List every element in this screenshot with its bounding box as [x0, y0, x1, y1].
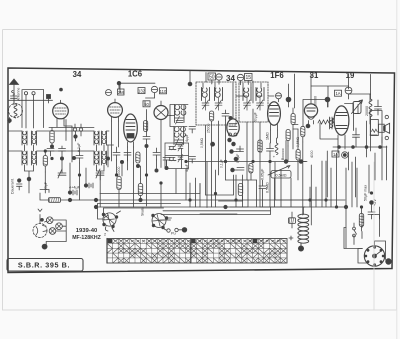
circled terminal top left of V2 [106, 90, 112, 96]
valve data table [107, 239, 287, 264]
tube type label 34 [73, 70, 82, 79]
bias resistor below V7 [301, 126, 305, 142]
svg-text:Dauerant.: Dauerant. [11, 178, 15, 194]
cap and resistor 0.5M center-right [259, 180, 270, 193]
antenna series capacitor [11, 96, 18, 104]
svg-text:MF-128KHZ: MF-128KHZ [72, 235, 101, 241]
coupling cap near output [353, 128, 360, 147]
svg-text:0,5MΩ: 0,5MΩ [266, 182, 270, 193]
IFT2 primary trimmer [244, 98, 251, 110]
grid cap dot left of 19 [325, 97, 330, 107]
resistor 15k box [249, 164, 253, 174]
resistor 0.5M right [296, 150, 300, 161]
junction dot under V1 [50, 145, 53, 148]
table pointer arrow top right [289, 236, 293, 240]
junction dot band switch [74, 131, 77, 141]
extra vertical drop wires left [29, 148, 186, 207]
svg-text:S.B.R. 395 B.: S.B.R. 395 B. [18, 261, 70, 270]
svg-text:25000: 25000 [207, 123, 211, 133]
wire bus B+ y200 [40, 190, 321, 201]
RF coil L4 right lower [102, 151, 107, 165]
IF transformer 1 shield dashed box [196, 82, 236, 125]
osc tank coil upper [175, 105, 186, 123]
screen resistor R2 [43, 151, 47, 172]
wire grid line to RF tube [8, 99, 53, 101]
circled terminal G [216, 74, 222, 80]
label vertical NaF [363, 185, 367, 201]
band switch contact S2a [73, 124, 76, 131]
osc tank coil fourth [169, 155, 183, 163]
label 0.1uF vertical [77, 142, 81, 152]
IFT1 primary trimmer [202, 98, 209, 110]
antenna coil secondary upper right [32, 131, 37, 145]
label 0.05uF vertical [261, 168, 265, 180]
osc tank trimmer upper [176, 116, 184, 124]
wire RF coils joining [97, 145, 105, 180]
wavechange switch wafer 2 [152, 214, 168, 229]
filter capacitor right [375, 100, 382, 115]
tone pot diagonal arrow [352, 100, 363, 114]
page fold faint line [373, 162, 375, 310]
tube type label 1C6 [128, 70, 143, 79]
mica capacitor pair mid [163, 158, 170, 167]
hum coil vertical right [369, 94, 372, 121]
osc tank coil third [169, 144, 183, 152]
wire V1 pins down [57, 121, 72, 162]
IF amp tube V5 [227, 119, 239, 136]
wires IF verticals [206, 109, 299, 195]
electrolytic caps 4+4uF [68, 183, 93, 195]
wire coil tops joining [25, 145, 34, 151]
rectifier tube 31 V7 [304, 104, 317, 124]
svg-text:2: 2 [104, 233, 106, 237]
table heavy separator and header glyphs [107, 239, 257, 264]
extra horizontal link wires [8, 83, 306, 207]
wire bus y193.5 [100, 184, 200, 194]
boxed label 110 [160, 88, 168, 94]
svg-text:19: 19 [346, 71, 355, 80]
svg-text:1A: 1A [333, 152, 338, 157]
boxed label 132 [138, 88, 146, 94]
svg-text:1F6: 1F6 [270, 71, 284, 80]
svg-text:4µµF: 4µµF [185, 134, 189, 142]
tuning gang capacitor mid [96, 169, 104, 178]
filament bus wire y147 [333, 146, 387, 149]
svg-text:110: 110 [160, 89, 167, 94]
RF coil L3 right [102, 131, 107, 145]
loudspeaker [370, 120, 389, 136]
IFT1 grid resistor [210, 111, 214, 121]
IFT2 secondary coil [256, 88, 264, 101]
long link wires y210 y214 [161, 208, 271, 215]
output tube 19 V8 [332, 106, 348, 139]
circled terminal mid [151, 86, 157, 98]
junction dot osc bottom [155, 166, 168, 172]
AF coupling resistor vertical [258, 140, 262, 152]
label vertical 30000 [365, 106, 369, 116]
junction dot top center [188, 82, 192, 86]
antenna coil secondary upper left [22, 131, 27, 145]
RF coil L3 left [94, 131, 99, 145]
osc tank trimmer lower [175, 138, 183, 146]
speaker field tap resistor [289, 212, 296, 228]
svg-text:1939-40: 1939-40 [76, 228, 98, 234]
resistor boxed on lower mid [136, 152, 140, 163]
svg-text:0,5MΩ: 0,5MΩ [296, 136, 300, 147]
svg-text:34: 34 [73, 70, 82, 79]
osc tank coil lower [174, 127, 185, 145]
wire top bus mixer [119, 82, 155, 84]
electrolytic 2V cap bottom right [368, 199, 380, 219]
small cap with label left of IF 2 [185, 157, 196, 173]
wire rotary connections [358, 241, 386, 263]
nested wire corners center [200, 162, 345, 214]
padder capacitor C6 [143, 132, 150, 145]
svg-text:50000: 50000 [314, 96, 318, 106]
circled dot below 19 [342, 152, 348, 158]
wire right verticals to bottom [303, 142, 346, 248]
filament wires below 19 [320, 123, 345, 153]
trimmer cap mixer [153, 148, 160, 160]
chassis date label 1939-40 [76, 228, 98, 234]
grid leak resistor R4 [144, 121, 148, 132]
bypass capacitor C3 [59, 146, 66, 157]
wire oscillator verticals [145, 101, 182, 170]
tuning gang capacitor left [58, 169, 66, 178]
svg-text:4µµF: 4µµF [185, 164, 189, 172]
extra junction dots [44, 88, 373, 209]
V7 cathode dot [306, 124, 310, 128]
wire antenna top bus [23, 89, 44, 91]
volume pot 0.5M [268, 166, 291, 179]
oscillator section tube V3 [154, 101, 168, 120]
pilot lamp 2 [56, 223, 63, 230]
svg-text:Pu: Pu [171, 232, 176, 236]
vertical resistor on bus x140 [138, 179, 142, 200]
dropper resistor boxed on bus [49, 198, 61, 203]
circled terminal above 1F6 [276, 93, 282, 99]
wire bus y207 [96, 206, 346, 208]
svg-text:4000: 4000 [310, 150, 314, 158]
label 0.1uF det vertical [236, 153, 240, 163]
antenna coil secondary lower right [32, 151, 37, 165]
svg-text:1C6: 1C6 [128, 70, 143, 79]
mains terminal big dot [386, 259, 392, 265]
chassis label MF-128KHZ [72, 235, 101, 241]
wire top area links [190, 71, 371, 109]
junction dot osc [145, 144, 148, 147]
boxed terminal label 15 [245, 74, 253, 82]
osc tank box lower [165, 143, 189, 169]
voltage selector rotary [364, 246, 384, 266]
boxed label 50b [143, 101, 150, 107]
AVC resistor R8 [286, 130, 290, 147]
AF choke coil [275, 138, 278, 155]
svg-text:4+4µF: 4+4µF [69, 186, 81, 190]
IFT1 secondary trimmer [215, 98, 222, 110]
svg-text:132: 132 [138, 89, 146, 94]
IFT1 secondary coil [215, 88, 223, 101]
grid cap component above V1 [47, 95, 51, 104]
switch wafer 1 frame wires [98, 204, 181, 221]
tube type label 19 [346, 71, 355, 80]
wire speaker top [349, 93, 371, 95]
AF coupling cap C12 [267, 143, 276, 159]
antenna coil secondary lower left [22, 151, 27, 165]
diode load resistor R7 [291, 108, 295, 129]
vertical resistor on bus x240 [238, 184, 242, 196]
label Antenne vertical [17, 88, 21, 101]
junction dots row y158 [106, 157, 139, 168]
svg-text:0,1µF: 0,1µF [220, 159, 224, 168]
grid cap dot right of 1F6 [286, 97, 291, 107]
svg-text:0,1µF: 0,1µF [77, 142, 81, 152]
svg-text:0,05µF: 0,05µF [261, 168, 265, 180]
field coil terminal dot [298, 246, 303, 251]
coupling capacitor C4 [72, 148, 83, 163]
boxed label 1A bottom [332, 151, 339, 157]
switch contact S1b [32, 92, 35, 128]
IFT2 secondary trimmer [257, 98, 264, 110]
tube type label 1F6 [270, 71, 284, 80]
wire osc tank frame [170, 105, 188, 127]
IF transformer 2 shield dashed box [239, 82, 268, 122]
junction dot top wire [117, 81, 121, 89]
circled terminal M [237, 74, 243, 80]
wire bottom right frame [344, 215, 380, 249]
switch contact S1a [24, 92, 27, 128]
pilot lamp tube socket circle [33, 209, 47, 238]
wire box around R1 [49, 120, 66, 141]
detector cap C11 [231, 168, 244, 172]
tube type label 34 second [226, 74, 235, 83]
circled terminal right top [345, 87, 352, 99]
boxed label 1A [335, 90, 342, 96]
wires IF horizontal links [206, 73, 274, 97]
small cap bottom left [17, 179, 23, 190]
audio bus wire y161 [269, 160, 307, 164]
label Dauerantenne vertical bottom left [11, 178, 15, 194]
table header tick glyphs [109, 240, 286, 242]
wire wafer2 to right [104, 215, 171, 230]
detector cap C10 [230, 146, 244, 153]
pilot lamp 3 [49, 228, 56, 235]
model name box SBR 395 B [7, 259, 83, 272]
wafer 1 pigtail [104, 227, 114, 237]
wire joining coil columns bottom [25, 165, 34, 181]
svg-text:Antenne: Antenne [17, 88, 21, 101]
field coil choke bottom right [298, 207, 309, 246]
tube type label 31 [310, 71, 319, 80]
interstage transformer zigzag [318, 117, 333, 129]
converter tube 1C6 V4 [124, 114, 138, 147]
padding capacitor C8 [124, 153, 131, 162]
pickup junction dot [182, 228, 187, 233]
boxed terminal label 50 [208, 73, 216, 81]
junction dots on buses [68, 198, 347, 208]
detector tube 1F6 V6 [268, 102, 281, 130]
svg-text:0,5MΩ: 0,5MΩ [200, 137, 204, 148]
svg-text:2M: 2M [118, 90, 124, 95]
wavechange switch wafer 1 [102, 213, 118, 228]
speaker terminal circles [385, 115, 388, 139]
svg-text:25µF: 25µF [44, 182, 48, 190]
svg-text:1A: 1A [335, 91, 340, 96]
junction dot left column [60, 157, 63, 160]
band switch contact S2b [79, 124, 82, 136]
bypass capacitor C2 [47, 149, 54, 157]
padding capacitor C7 [113, 147, 120, 160]
small cap with label left of IF 1 [185, 127, 196, 143]
cathode resistor R1 [50, 128, 54, 149]
mixer tube V2 [108, 99, 123, 121]
antenna [10, 79, 19, 105]
svg-text:1MΩ: 1MΩ [266, 132, 270, 140]
svg-text:50µF max: 50µF max [363, 185, 367, 201]
IFT1 bypass cap [222, 110, 232, 120]
pickup terminals Pu [165, 228, 183, 235]
IFT1 primary coil [202, 88, 210, 101]
label mid vertical Brumm [314, 96, 318, 106]
svg-text:50µµF: 50µµF [254, 112, 258, 122]
RF amp tube 34 V1 [53, 100, 69, 121]
svg-text:50000: 50000 [117, 166, 121, 176]
boxed label 2M [118, 89, 125, 95]
table cell markings [107, 239, 286, 263]
svg-text:Booooo: Booooo [281, 148, 285, 160]
svg-text:20000: 20000 [365, 106, 369, 116]
wire IF verticals extra [203, 83, 261, 119]
ground dot below antenna coil [8, 118, 12, 124]
lamp cluster wires [43, 220, 67, 247]
lamp cluster terminal dots [41, 218, 48, 249]
RF coil L4 left lower [94, 151, 99, 165]
wire power top bus [303, 86, 382, 225]
V5 cathode dots [228, 138, 236, 146]
junction dots detector [211, 142, 238, 161]
extra vertical drop wires right [190, 121, 387, 207]
antenna coil L1 in dashed screen can [9, 104, 23, 119]
wire from bus down to contacts [43, 90, 45, 128]
mains dropper resistor bottom right [359, 207, 363, 231]
dial resistor boxed x119 [117, 177, 121, 190]
border frame [8, 68, 395, 273]
pilot lamp 1 [46, 217, 53, 224]
IFT2 primary coil [243, 88, 251, 101]
wire mixer verticals [108, 121, 134, 170]
micro value labels vertical sprinkle [44, 112, 314, 216]
svg-text:Skala: Skala [141, 207, 145, 216]
label 1M vertical [266, 132, 270, 140]
on-off switch contacts bottom right [353, 223, 357, 237]
